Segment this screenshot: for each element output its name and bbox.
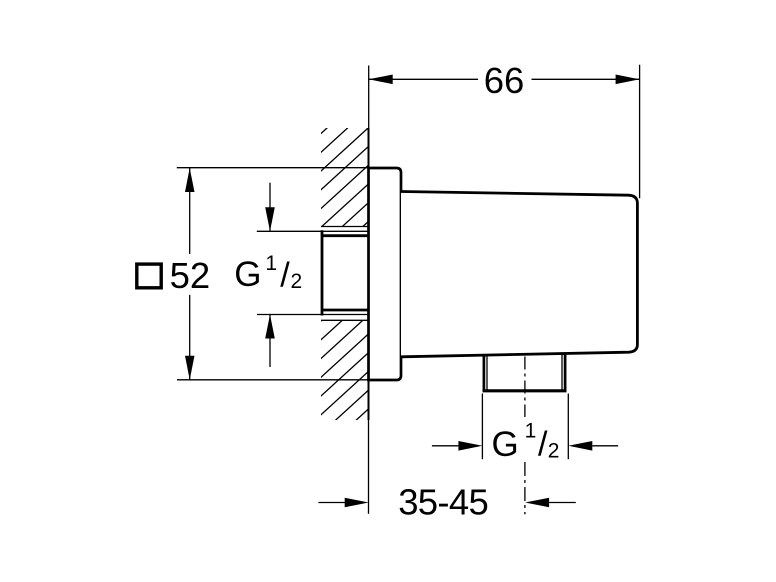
dim line right: [549, 502, 576, 504]
wall hatching: [318, 89, 370, 474]
hole edge bottom: [321, 319, 369, 321]
dim line right: [592, 445, 618, 447]
extension top: [177, 167, 369, 169]
svg-text:66: 66: [484, 60, 525, 101]
extension line 66 left / wall top: [368, 66, 370, 129]
arrow left: [369, 75, 393, 85]
svg-text:G: G: [234, 255, 261, 294]
hole edge top: [321, 226, 369, 228]
dim line left: [432, 445, 459, 447]
svg-text:35-45: 35-45: [398, 481, 488, 522]
arrow down: [185, 356, 195, 380]
arrow up (bottom): [265, 315, 275, 339]
svg-text:2: 2: [291, 270, 303, 293]
svg-text:/: /: [538, 426, 548, 464]
dim line upper: [189, 168, 191, 254]
arrow right: [616, 75, 640, 85]
dim line left: [318, 502, 345, 504]
dim line left part: [369, 78, 478, 80]
svg-text:1: 1: [525, 420, 537, 443]
inlet thread thick body: [321, 230, 324, 315]
dim line lower: [189, 295, 191, 380]
dim line below: [269, 315, 271, 368]
extension left: [481, 394, 483, 460]
arrow right-pointing: [458, 441, 482, 451]
flange (escutcheon): [369, 168, 402, 380]
inlet thread outer thin lines: [321, 230, 369, 232]
extension bottom: [257, 314, 321, 316]
extension right: [567, 394, 569, 460]
extension bottom: [177, 379, 369, 381]
arrow left-pointing: [568, 441, 592, 451]
svg-text:2: 2: [548, 440, 560, 463]
arrow left-pointing at center line: [525, 498, 549, 508]
outlet thread inner thin lines: [486, 355, 488, 389]
extension line 35-45 left / wall bottom: [368, 420, 370, 514]
arrow down (top): [265, 207, 275, 231]
arrow up: [185, 168, 195, 192]
wall surface line: [368, 128, 370, 420]
body (tapered): [401, 192, 637, 357]
center line of outlet: [524, 357, 526, 418]
svg-text:/: /: [280, 257, 290, 295]
square symbol: [137, 264, 161, 288]
outlet thread sides: [483, 355, 486, 391]
svg-text:1: 1: [265, 252, 277, 275]
extension line right: [639, 65, 641, 199]
extension top: [257, 230, 321, 232]
dim line above: [269, 183, 271, 232]
svg-text:52: 52: [170, 255, 211, 296]
outlet bottom thick line: [483, 389, 567, 392]
arrow right-pointing at wall: [345, 498, 369, 508]
dim line right part: [532, 78, 640, 80]
svg-text:G: G: [492, 425, 519, 464]
